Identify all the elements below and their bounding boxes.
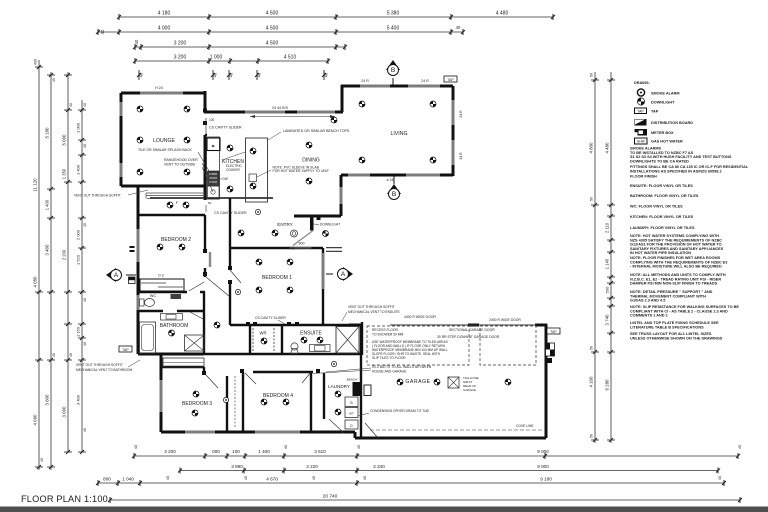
svg-text:MECHANICAL VENT TO BATHROOM: MECHANICAL VENT TO BATHROOM [76, 368, 132, 372]
wall garage top segment mid [468, 324, 479, 327]
svg-text:LAMINATED OR SIMILAR BENCH TOP: LAMINATED OR SIMILAR BENCH TOPS [283, 129, 350, 133]
svg-text:IN HOT WATER PIPE INSULATION: IN HOT WATER PIPE INSULATION [630, 251, 691, 255]
svg-text:50: 50 [590, 73, 594, 77]
svg-text:G10/AS 2.3 AND 4.5: G10/AS 2.3 AND 4.5 [630, 299, 665, 303]
svg-text:BEDROOM 1: BEDROOM 1 [262, 275, 292, 281]
garage ghw unit [364, 385, 371, 396]
svg-text:40: 40 [229, 72, 234, 77]
wall left mid [137, 186, 140, 354]
svg-text:3 600: 3 600 [45, 394, 50, 406]
svg-text:DINING: DINING [302, 158, 320, 164]
svg-text:DAMPER PSI MIN NON-SLIP FINISH: DAMPER PSI MIN NON-SLIP FINISH TO TREADS [630, 282, 718, 286]
svg-text:800: 800 [103, 477, 111, 482]
wall bedroom34 divider a [226, 376, 228, 432]
wall bedroom2 right low [204, 268, 206, 277]
svg-text:DRAINS:: DRAINS: [634, 81, 650, 85]
svg-text:4 510: 4 510 [284, 55, 297, 61]
svg-text:100: 100 [209, 118, 215, 122]
svg-text:24 R: 24 R [459, 110, 463, 118]
svg-text:4 480: 4 480 [605, 142, 610, 154]
wall bedrooms bottom [161, 431, 355, 434]
svg-text:400: 400 [289, 247, 295, 251]
left dimension column [33, 59, 88, 470]
garage door head thin line [390, 324, 536, 326]
svg-text:40: 40 [213, 72, 218, 77]
svg-text:SECTIONAL GARAGE DOOR: SECTIONAL GARAGE DOOR [449, 328, 495, 332]
garage tiled square [448, 377, 459, 388]
svg-text:LOUNGE: LOUNGE [153, 138, 175, 144]
svg-text:VENT OUT THROUGH SOFFIT: VENT OUT THROUGH SOFFIT [74, 194, 121, 198]
legend downlight icon [637, 98, 644, 105]
svg-text:40: 40 [100, 29, 105, 34]
wc toilet [145, 299, 155, 307]
svg-text:R2.2 BATTS TO ALL WALLS BETWEE: R2.2 BATTS TO ALL WALLS BETWEEN [372, 365, 432, 369]
svg-text:LAUNDRY: LAUNDRY [328, 384, 350, 389]
top tick row (40s) [137, 70, 329, 80]
wall hall low left [203, 367, 205, 375]
ensuite vanity [310, 345, 331, 352]
svg-text:FOR HOT WATER SUPPLY TO UNIT: FOR HOT WATER SUPPLY TO UNIT [273, 169, 329, 173]
svg-text:BEDROOM 2: BEDROOM 2 [161, 237, 191, 243]
svg-text:2 000: 2 000 [76, 229, 81, 240]
svg-text:METER BOX: METER BOX [651, 131, 674, 135]
tap labels [444, 76, 457, 82]
legend [634, 81, 693, 144]
wall ensuite bottom [204, 353, 362, 355]
wall living top [341, 85, 453, 88]
svg-text:KITCHEN: FLOOR VINYL OR TILES: KITCHEN: FLOOR VINYL OR TILES [630, 215, 694, 219]
svg-text:MECHANICAL VENT TO ENSUITE: MECHANICAL VENT TO ENSUITE [348, 310, 401, 314]
svg-text:40: 40 [83, 144, 87, 148]
wall bedroom4 right [310, 371, 312, 432]
legend meter box icon [635, 129, 648, 136]
garage door dashed right [480, 326, 536, 365]
wall bedroom2 top [138, 214, 205, 216]
svg-text:40: 40 [139, 72, 144, 77]
svg-text:RANGEHOOD OVER: RANGEHOOD OVER [164, 158, 198, 162]
svg-text:GHW: GHW [637, 140, 645, 144]
garage cove line [370, 429, 543, 431]
wall entry north [294, 215, 341, 218]
svg-text:40: 40 [363, 476, 367, 480]
robe bedroom3 [163, 358, 204, 367]
bathroom tub [140, 322, 156, 353]
svg-text:ENSUITE: FLOOR VINYL OR TILES: ENSUITE: FLOOR VINYL OR TILES [630, 184, 693, 188]
svg-text:VENT TO OUTSIDE: VENT TO OUTSIDE [164, 163, 196, 167]
svg-text:30 RR STEP DOWN AT GARAGE DOOR: 30 RR STEP DOWN AT GARAGE DOOR [437, 335, 500, 339]
wall laundry left [323, 373, 325, 419]
svg-text:TAP: TAP [122, 348, 129, 352]
svg-text:ENSUITE: ENSUITE [300, 331, 322, 337]
wall lounge bottom [121, 185, 205, 188]
wall entry south sidelight [326, 247, 342, 249]
svg-text:50: 50 [590, 197, 594, 201]
svg-text:COVE LINE: COVE LINE [516, 424, 534, 428]
svg-text:24 R: 24 R [361, 79, 369, 83]
wall garage right [545, 324, 548, 438]
svg-text:40: 40 [52, 353, 56, 357]
svg-text:TO SHOWER 50 MM: TO SHOWER 50 MM [372, 333, 404, 337]
svg-text:B: B [392, 191, 396, 198]
svg-text:40: 40 [83, 342, 87, 346]
garage door dashed left [367, 326, 469, 365]
svg-text:BEDROOM 4: BEDROOM 4 [263, 393, 293, 399]
bathroom shower [185, 335, 205, 351]
bedroom2 door leaf [209, 252, 211, 267]
svg-text:LITERATURE TABLE B SPECIFICATI: LITERATURE TABLE B SPECIFICATIONS [630, 325, 704, 329]
svg-text:WT: WT [349, 412, 354, 416]
laundry appliances [345, 397, 358, 429]
svg-text:DISTRIBUTION BOARD: DISTRIBUTION BOARD [651, 121, 693, 125]
svg-text:F: F [176, 201, 179, 205]
svg-text:3 200: 3 200 [164, 449, 176, 454]
wall bedroom4 top [253, 371, 313, 373]
svg-text:40: 40 [166, 476, 170, 480]
wall living step [341, 85, 344, 112]
svg-text:9 000: 9 000 [537, 449, 549, 454]
door swing laundry [329, 419, 344, 433]
island sink [249, 174, 257, 182]
svg-text:a 24: a 24 [387, 178, 394, 182]
wall living bottom [341, 174, 453, 177]
entry door [290, 217, 314, 248]
svg-text:9 000: 9 000 [537, 464, 549, 469]
downlights [137, 101, 511, 416]
section marker A right [338, 267, 354, 281]
svg-text:INSTALLATIONS AS SPECIFIED IN: INSTALLATIONS AS SPECIFIED IN AS/NZS 605… [630, 169, 722, 173]
svg-text:GAS HOT WATER: GAS HOT WATER [651, 140, 683, 144]
svg-text:40: 40 [244, 476, 248, 480]
top dimension row 4 [133, 55, 330, 65]
svg-text:A: A [114, 272, 119, 279]
svg-text:3 740: 3 740 [605, 314, 610, 326]
wall shower right [361, 322, 363, 355]
svg-text:3 400: 3 400 [45, 244, 50, 256]
ensuite toilet [291, 343, 298, 350]
kitchen bench [207, 137, 221, 199]
svg-text:40: 40 [69, 103, 73, 107]
svg-text:5 400: 5 400 [387, 26, 400, 32]
wall bathroom top b [177, 310, 204, 312]
svg-text:WC: WC [150, 294, 156, 298]
svg-text:5 380: 5 380 [387, 11, 400, 17]
svg-text:UNLESS OTHERWISE SHOWN ON THE: UNLESS OTHERWISE SHOWN ON THE DRAWINGS [630, 336, 723, 340]
svg-text:40: 40 [324, 72, 329, 77]
svg-text:B: B [350, 401, 353, 405]
svg-text:1 150: 1 150 [76, 326, 81, 337]
wall lounge right upper [204, 91, 207, 112]
svg-text:500: 500 [605, 286, 610, 293]
hall shelving lines [146, 193, 205, 205]
wall wc top [138, 291, 187, 293]
svg-text:3 200: 3 200 [174, 41, 187, 47]
svg-text:COOKER: COOKER [226, 168, 241, 172]
svg-text:WC: FLOOR VINYL OR TILES: WC: FLOOR VINYL OR TILES [630, 205, 683, 209]
bathroom door swing [190, 312, 203, 319]
wr shelves [252, 328, 254, 352]
svg-text:LAUNDRY: FLOOR VINYL OR TILES: LAUNDRY: FLOOR VINYL OR TILES [630, 226, 695, 230]
svg-text:2 240: 2 240 [373, 464, 385, 469]
svg-text:CS CAVITY SLIDER: CS CAVITY SLIDER [214, 211, 247, 215]
wall bedroom1 left2 [229, 283, 231, 325]
svg-text:CS CAVITY SLIDER: CS CAVITY SLIDER [255, 316, 286, 320]
wall lounge top [121, 92, 205, 95]
svg-text:BATHROOM: BATHROOM [160, 323, 189, 329]
svg-text:HOUSE AND GARAGE: HOUSE AND GARAGE [372, 370, 407, 374]
wall entry east [340, 175, 343, 216]
wall lounge left [120, 93, 123, 186]
wall vent marks [130, 246, 135, 248]
svg-text:9 180: 9 180 [540, 477, 552, 482]
svg-text:BATHROOM: FLOOR VINYL OR TILE: BATHROOM: FLOOR VINYL OR TILES [630, 194, 699, 198]
svg-text:24 44 R/S: 24 44 R/S [272, 106, 289, 110]
wall ensuite top [230, 324, 362, 326]
wall laundry step [354, 432, 357, 438]
svg-text:1 000: 1 000 [210, 55, 223, 61]
bottom dimension row D (overall) [108, 494, 742, 504]
svg-text:40: 40 [83, 223, 87, 227]
svg-text:40: 40 [69, 353, 73, 357]
svg-text:3 510: 3 510 [314, 449, 326, 454]
svg-text:A: A [341, 271, 346, 278]
svg-text:900: 900 [299, 242, 305, 246]
svg-text:40: 40 [134, 445, 138, 449]
svg-text:1 140: 1 140 [605, 258, 610, 269]
wall bathroom top [138, 310, 163, 312]
svg-text:BENCH: BENCH [347, 378, 358, 382]
svg-text:GARAGE: GARAGE [463, 388, 476, 392]
svg-text:4 480: 4 480 [496, 11, 509, 17]
svg-text:40: 40 [83, 428, 87, 432]
wall garage left [360, 325, 362, 438]
svg-text:3 200: 3 200 [174, 55, 187, 61]
ensuite shower tiled [336, 327, 359, 354]
svg-text:40: 40 [83, 298, 87, 302]
svg-text:40: 40 [257, 72, 262, 77]
svg-text:24 R: 24 R [421, 79, 429, 83]
svg-text:COMMENTS 1 AND 2: COMMENTS 1 AND 2 [630, 314, 668, 318]
right dimension column [589, 72, 616, 443]
svg-text:VENT OUT THROUGH SOFFIT: VENT OUT THROUGH SOFFIT [348, 305, 395, 309]
batts leaders [326, 368, 371, 372]
svg-text:- INTERNAL MOISTURE WILL ALSO: - INTERNAL MOISTURE WILL ALSO BE REQUIRE… [630, 265, 722, 269]
svg-text:4 060: 4 060 [33, 414, 38, 426]
door swing bedroom3 [206, 375, 218, 388]
svg-text:40: 40 [456, 25, 461, 30]
svg-text:FLOOR FINISH: FLOOR FINISH [630, 175, 657, 179]
door swing bedroom1 [230, 270, 241, 283]
svg-text:1 400: 1 400 [258, 449, 270, 454]
svg-text:FLOOR PLAN 1:100: FLOOR PLAN 1:100 [21, 494, 108, 504]
meter box [546, 343, 555, 356]
wall bedroom1 left [229, 248, 231, 270]
svg-text:5 180: 5 180 [45, 127, 50, 139]
svg-text:▶: ▶ [212, 144, 215, 148]
notes column [630, 147, 749, 341]
bottom gray bar [0, 507, 768, 512]
svg-text:4 500: 4 500 [266, 26, 279, 32]
svg-text:1 350: 1 350 [62, 168, 67, 179]
robes bedroom34 divider [234, 376, 236, 428]
wall robe band [140, 279, 184, 291]
svg-text:40: 40 [738, 445, 742, 449]
svg-text:100: 100 [232, 449, 240, 454]
svg-text:2 110: 2 110 [605, 222, 610, 233]
svg-text:SLIP TILES TO FLOOR: SLIP TILES TO FLOOR [372, 356, 406, 360]
wall bathroom right [203, 292, 205, 354]
svg-text:4 500: 4 500 [266, 41, 279, 47]
svg-text:RECESS FLOOR: RECESS FLOOR [372, 328, 398, 332]
svg-text:4 050: 4 050 [33, 276, 38, 288]
svg-text:TILE OR SIMILAR SPLASH BACK: TILE OR SIMILAR SPLASH BACK [138, 148, 193, 152]
distribution board bedroom2 wall [129, 277, 136, 284]
door swing bedroom4 b [302, 372, 311, 383]
svg-text:D: D [350, 424, 353, 428]
svg-text:TAP: TAP [550, 330, 557, 334]
svg-text:CONDENSING DRYER DRAIN TO TUB: CONDENSING DRYER DRAIN TO TUB [370, 409, 430, 413]
bathroom vanity [161, 314, 183, 321]
wall lounge right lower [204, 135, 207, 200]
robe sliding doors [141, 282, 166, 284]
room labels [153, 131, 431, 407]
door jambs [202, 109, 321, 376]
windows [121, 86, 453, 432]
wall wr divider [281, 325, 283, 355]
svg-text:BEDROOM 3: BEDROOM 3 [182, 401, 212, 407]
svg-text:4 500: 4 500 [266, 11, 279, 17]
svg-text:1 400: 1 400 [45, 199, 50, 210]
svg-text:5 000: 5 000 [62, 134, 67, 146]
svg-text:4 100: 4 100 [589, 376, 594, 388]
wall garage top segment right [535, 324, 547, 327]
svg-text:24 R: 24 R [459, 152, 463, 160]
svg-text:1 000: 1 000 [76, 122, 81, 133]
wall bedroom3 left [160, 354, 163, 432]
interior walls [138, 198, 362, 438]
legend gas hot water icon [635, 138, 648, 144]
svg-text:40: 40 [134, 39, 139, 44]
svg-text:11 120: 11 120 [33, 178, 38, 192]
top dimension row 1 [117, 11, 555, 21]
svg-text:TAP: TAP [651, 110, 659, 114]
svg-text:B: B [391, 67, 395, 74]
svg-text:DOWNLIGHTS TO BE CA RATED: DOWNLIGHTS TO BE CA RATED [630, 160, 689, 164]
wall bedroom3 top [161, 366, 204, 368]
hall door swing [206, 277, 229, 296]
svg-text:2 200: 2 200 [62, 249, 67, 260]
leader lines kitchen [222, 152, 245, 160]
svg-text:40: 40 [83, 103, 87, 107]
bottom dimension row B [166, 464, 722, 480]
svg-text:3 400: 3 400 [76, 394, 81, 405]
svg-text:40: 40 [40, 458, 44, 462]
smoke alarms [223, 209, 336, 402]
laundry bench [353, 382, 362, 396]
bottom dimension row A [132, 445, 742, 459]
top dimension row 3 [133, 39, 347, 50]
svg-text:H 24: H 24 [155, 86, 163, 90]
bottom dimension row C [96, 477, 726, 487]
kitchen sink unit [208, 171, 220, 186]
svg-text:ENTRY: ENTRY [277, 222, 293, 227]
svg-text:1 400: 1 400 [76, 164, 81, 175]
wall entry hall [229, 214, 231, 248]
svg-text:2400 R WIDE DOOR: 2400 R WIDE DOOR [489, 318, 521, 322]
svg-text:VENT OUT THROUGH SOFFIT: VENT OUT THROUGH SOFFIT [76, 363, 123, 367]
robe door swing [189, 282, 204, 291]
svg-text:S1 S2 S3 S4 WITH HUSH FACILITY: S1 S2 S3 S4 WITH HUSH FACILITY AND TEST … [630, 155, 732, 159]
wc vanity [171, 294, 182, 299]
wall wc top stub [200, 291, 205, 293]
section marker B top [386, 60, 400, 76]
garage wall fitting [547, 358, 552, 363]
exterior walls [121, 85, 547, 438]
svg-text:D 3: D 3 [158, 274, 163, 278]
svg-text:40: 40 [312, 476, 316, 480]
top dimension row 2 [96, 25, 465, 35]
svg-text:4 000: 4 000 [158, 26, 171, 32]
section marker B bottom [387, 184, 401, 200]
svg-text:CS CAVITY SLIDER: CS CAVITY SLIDER [209, 126, 242, 130]
svg-text:6 280: 6 280 [605, 379, 610, 391]
wall wr left [249, 325, 251, 355]
section marker A left [106, 268, 122, 282]
entry wall light [291, 230, 298, 237]
door swing bedroom4 a [245, 373, 256, 384]
svg-text:3 220: 3 220 [306, 464, 318, 469]
svg-text:4 670: 4 670 [266, 477, 278, 482]
wall kitchen-dining top [204, 111, 343, 114]
wall hall right upper [229, 198, 231, 214]
wall bathroom bottom [138, 353, 204, 356]
svg-text:20 740: 20 740 [323, 494, 338, 500]
svg-text:40: 40 [357, 445, 361, 449]
wall garage top segment left [349, 324, 362, 327]
svg-text:TAP: TAP [637, 109, 644, 113]
wall bedroom34 divider b [242, 372, 244, 432]
svg-text:DOWNLIGHT: DOWNLIGHT [320, 223, 340, 227]
svg-text:WR: WR [260, 331, 267, 336]
svg-text:DW: DW [223, 177, 228, 181]
legend smoke alarm icon [637, 89, 644, 96]
svg-text:40: 40 [52, 78, 56, 82]
wall bedroom2 right [204, 215, 206, 253]
legend distribution board icon [635, 119, 647, 126]
leader lines rangehood [198, 152, 212, 176]
svg-text:DOWNLIGHT: DOWNLIGHT [651, 101, 675, 105]
svg-text:4 180: 4 180 [158, 11, 171, 17]
island bench [246, 138, 268, 202]
svg-text:50: 50 [208, 201, 212, 205]
svg-text:3 000: 3 000 [62, 406, 67, 418]
wall hall top [150, 197, 273, 199]
legend tap icon [635, 108, 647, 114]
wall living right [452, 86, 455, 176]
svg-text:GARAGE: GARAGE [405, 379, 430, 385]
svg-text:SMOKE ALARM: SMOKE ALARM [651, 92, 680, 96]
svg-text:3 890: 3 890 [231, 464, 243, 469]
svg-text:50: 50 [590, 346, 594, 350]
svg-text:1 520: 1 520 [76, 254, 81, 265]
svg-text:40: 40 [718, 476, 722, 480]
svg-text:400: 400 [34, 59, 38, 65]
svg-text:4 800: 4 800 [589, 142, 594, 154]
svg-text:1 040: 1 040 [122, 477, 134, 482]
wall garage bottom [355, 437, 546, 440]
svg-text:000: 000 [212, 449, 220, 454]
svg-text:TAP: TAP [447, 78, 454, 82]
svg-text:4400 R WIDE DOOR: 4400 R WIDE DOOR [404, 315, 436, 319]
